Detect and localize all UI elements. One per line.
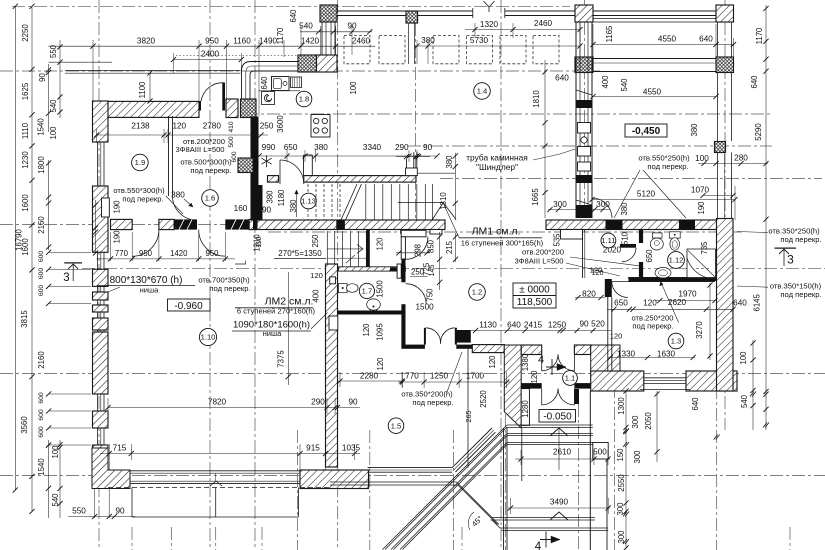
leader otv550x300 (1.9) — [166, 196, 183, 214]
door arc 1.7 to hall — [406, 284, 427, 305]
svg-text:1800: 1800 — [37, 156, 46, 174]
vestibule mid pier w — [521, 383, 542, 389]
room label 1.11 — [601, 233, 616, 248]
svg-text:1.5: 1.5 — [391, 421, 402, 430]
svg-text:735: 735 — [700, 241, 709, 255]
svg-text:5120: 5120 — [637, 190, 656, 199]
lower corridor wall east part — [546, 220, 732, 230]
left outer wall segments — [93, 101, 109, 142]
chimney solid piece 2 — [576, 175, 592, 183]
niche in left wall (1.9) — [102, 198, 110, 217]
right wall upper (terrace edge x716-733) — [717, 22, 719, 57]
svg-text:300: 300 — [596, 200, 610, 209]
svg-text:под перекр.: под перекр. — [190, 166, 231, 175]
level box -0.960 — [168, 299, 211, 311]
svg-text:550: 550 — [72, 507, 86, 516]
svg-text:2280: 2280 — [360, 372, 379, 381]
svg-text:190: 190 — [113, 200, 122, 214]
shower tray corner — [687, 249, 716, 278]
long wall between 1.10 and hall (x325.5-337.5) — [326, 264, 338, 467]
svg-text:2460: 2460 — [534, 19, 553, 28]
svg-text:1130: 1130 — [479, 321, 497, 330]
corner 1.5 northeast (solid) — [456, 330, 470, 343]
room label 1.2 — [469, 284, 486, 301]
washbasin 1.7 — [339, 284, 348, 293]
svg-text:535: 535 — [553, 233, 562, 247]
svg-text:300: 300 — [553, 200, 567, 209]
svg-text:300: 300 — [617, 530, 626, 544]
room 1.3 north wall — [628, 277, 715, 279]
dim 7820/290/90 — [108, 407, 360, 409]
axis col I (porch right) — [578, 404, 580, 550]
left outer wall bottom — [93, 445, 109, 470]
svg-text:под перекр.: под перекр. — [647, 162, 688, 171]
svg-text:800*130*670 (h): 800*130*670 (h) — [110, 275, 183, 286]
svg-text:2138: 2138 — [131, 122, 150, 131]
svg-text:640: 640 — [260, 76, 269, 90]
svg-text:380: 380 — [314, 143, 328, 152]
wall lines below K7 — [408, 23, 410, 64]
svg-text:600: 600 — [38, 268, 45, 280]
porch step arrows — [550, 428, 568, 436]
left wall pier — [93, 411, 109, 428]
lower wall solid piece 2 w/ slashes — [225, 219, 249, 229]
leader niche 1090 — [311, 313, 328, 330]
svg-text:510: 510 — [621, 231, 630, 245]
svg-text:600: 600 — [38, 285, 45, 297]
lower wall pier — [159, 219, 174, 229]
dim v left main chain — [31, 6, 33, 511]
door arc top (1.9 loggia door) — [222, 83, 225, 111]
dim row 540/90 — [300, 31, 372, 33]
svg-text:1250: 1250 — [430, 372, 449, 381]
svg-text:3815: 3815 — [20, 310, 29, 328]
svg-text:640: 640 — [555, 74, 569, 83]
svg-text:-0.050: -0.050 — [543, 411, 572, 422]
vestibule mid pier e — [574, 383, 590, 389]
dim v right margin — [765, 5, 767, 430]
svg-text:ниша: ниша — [263, 329, 283, 338]
axis row 7 (wc wall) — [82, 267, 825, 269]
svg-text:380: 380 — [289, 199, 298, 213]
upper corridor wall (stair north wall) — [268, 176, 279, 183]
axis row 5 (stair wall) — [440, 178, 822, 180]
leader otv250x200 — [661, 282, 679, 323]
wall 1.11 west — [582, 230, 584, 279]
svg-text:труба каминная: труба каминная — [466, 153, 528, 163]
svg-text:"Шиндлер": "Шиндлер" — [476, 162, 518, 172]
svg-text:2520: 2520 — [479, 390, 488, 408]
room label 1.5 — [388, 418, 404, 434]
svg-text:под перекр.: под перекр. — [412, 398, 453, 407]
room label 1.4 — [474, 83, 491, 100]
left outer wall lower-mid — [93, 332, 109, 394]
lower wall rooms 1.9/1.6 (y219.4-229.6) — [111, 219, 133, 229]
level box +0000/118500 — [513, 283, 556, 308]
svg-text:120: 120 — [172, 122, 186, 131]
dim 1320/2460 — [465, 29, 580, 31]
axis row 9 (south wall) — [0, 475, 825, 477]
column K5 (cross-hatched) — [716, 57, 734, 73]
column K2 — [575, 5, 593, 22]
svg-text:380: 380 — [421, 36, 435, 45]
svg-text:1250: 1250 — [548, 321, 567, 330]
svg-text:3: 3 — [787, 253, 794, 267]
stair upstand east walls — [406, 159, 408, 174]
svg-text:640: 640 — [691, 397, 700, 411]
svg-text:600: 600 — [231, 151, 238, 162]
svg-text:2780: 2780 — [203, 122, 222, 131]
svg-text:3340: 3340 — [363, 143, 382, 152]
svg-text:90: 90 — [115, 507, 125, 516]
dim v 1810/1665 — [544, 60, 546, 218]
porch side step box — [593, 443, 608, 460]
dim v 380/1310 — [454, 153, 456, 220]
dim row top-left 3820/950/1160/1490 — [49, 45, 376, 47]
svg-text:3820: 3820 — [137, 37, 156, 46]
axis col B — [209, 0, 211, 550]
svg-text:под перекр.: под перекр. — [780, 235, 821, 244]
dim v 2050 — [656, 391, 658, 462]
dim v 2160 chain — [48, 200, 50, 250]
svg-text:3490: 3490 — [550, 498, 569, 507]
svg-text:280: 280 — [734, 154, 748, 163]
svg-text:1310: 1310 — [439, 192, 448, 210]
dim 1970 — [655, 300, 715, 302]
svg-text:1070: 1070 — [691, 186, 710, 195]
door arc 1.9 to 1.10 — [132, 230, 159, 257]
stair wall left upstand — [303, 155, 305, 176]
lower corridor wall west part — [257, 220, 445, 230]
dim v inner chain 550/540 — [59, 40, 61, 118]
landing notch under wall — [401, 230, 409, 234]
right wall window (x716-733 y152-222) — [717, 153, 719, 221]
leader otv350x200 — [447, 352, 462, 392]
svg-text:3Ф8АIII L=500: 3Ф8АIII L=500 — [514, 257, 563, 266]
svg-text:650: 650 — [645, 249, 654, 263]
svg-text:100: 100 — [739, 351, 748, 365]
leader otv200x200 wc — [570, 257, 640, 266]
svg-text:16790: 16790 — [15, 228, 24, 250]
south pier (hatched) — [300, 470, 369, 489]
slab edge diagonal — [457, 482, 500, 525]
svg-text:4550: 4550 — [643, 88, 662, 97]
column K6 small cross-hatched — [715, 142, 726, 153]
door leaf box landing — [401, 230, 426, 237]
solid piece in corridor wall — [606, 220, 623, 230]
flue opening 1 — [578, 123, 591, 134]
door arc landing to hall — [405, 237, 428, 259]
dim v right inner — [752, 340, 754, 430]
room label 1.3 — [668, 333, 684, 349]
svg-text:6145: 6145 — [753, 293, 762, 311]
svg-text:1.7: 1.7 — [362, 287, 373, 296]
svg-text:под перекр.: под перекр. — [632, 322, 673, 331]
dim 380/5730 — [414, 45, 580, 47]
svg-text:950: 950 — [205, 249, 219, 258]
left wall window group 3a — [97, 394, 99, 411]
double door vestibule-porch — [541, 389, 543, 405]
svg-text:250: 250 — [311, 234, 320, 248]
corner window block C — [298, 55, 317, 72]
room 1.7 east wall — [401, 237, 405, 259]
svg-text:190: 190 — [113, 230, 122, 244]
solid piece in corridor wall 2 — [679, 220, 695, 230]
dim 1070 — [703, 195, 733, 197]
section arrow 4 bottom — [540, 539, 560, 541]
dim 2280 — [338, 380, 402, 382]
svg-text:1810: 1810 — [532, 90, 541, 108]
dim 820 — [575, 297, 605, 299]
dim 300/300 — [548, 209, 610, 211]
svg-text:16 ступеней 300*165(h): 16 ступеней 300*165(h) — [461, 239, 544, 248]
leader otv350x250 — [737, 232, 768, 233]
axis row 3 — [245, 113, 770, 115]
chimney solid bottom — [576, 205, 592, 218]
dim 2400 — [174, 59, 242, 61]
left wall window 1 — [97, 142, 99, 186]
axis col A (left wall) — [98, 0, 100, 550]
svg-text:850: 850 — [427, 239, 436, 253]
svg-text:915: 915 — [306, 444, 320, 453]
1.3 window — [644, 377, 686, 379]
svg-text:1490: 1490 — [259, 37, 278, 46]
svg-text:7375: 7375 — [277, 350, 286, 368]
svg-text:540: 540 — [49, 99, 58, 113]
dim v 1800 chain — [48, 160, 50, 200]
dim 550/90 — [68, 516, 135, 518]
svg-text:90: 90 — [348, 398, 358, 407]
chimney wall (fireplace flue) x576-592 — [575, 22, 577, 218]
svg-text:400: 400 — [601, 75, 610, 89]
svg-text:2160: 2160 — [37, 216, 46, 234]
svg-text:2415: 2415 — [524, 321, 543, 330]
dim rows 600 left wall — [49, 251, 91, 253]
svg-text:4: 4 — [535, 541, 542, 550]
svg-text:715: 715 — [113, 444, 127, 453]
kitchen drainer — [291, 77, 302, 88]
axis col F (chimney) — [584, 0, 586, 232]
chimney solid piece — [576, 100, 592, 108]
SW corner wall — [92, 448, 130, 489]
flue circle — [581, 137, 587, 143]
svg-text:2610: 2610 — [553, 448, 572, 457]
beam between K4-K5 — [593, 58, 716, 60]
landing notch at wall end — [430, 230, 442, 235]
terrace dashed squares row — [344, 36, 370, 64]
room label 1.7 — [359, 283, 374, 298]
beam top inner edge — [593, 18, 716, 20]
axis col G (right wall) — [724, 0, 726, 430]
column K4 (cross-hatched) — [575, 57, 593, 73]
dim extension lines top-left — [92, 40, 94, 101]
bay south window (triple) — [368, 467, 453, 469]
svg-text:600: 600 — [38, 392, 45, 404]
svg-text:290: 290 — [311, 398, 325, 407]
svg-text:820: 820 — [582, 290, 596, 299]
double slash marks porch dims — [623, 429, 627, 434]
left outer wall mid — [93, 186, 109, 252]
vent block otv.500*300 — [238, 158, 253, 173]
svg-text:3: 3 — [63, 272, 69, 284]
svg-text:120: 120 — [376, 357, 385, 371]
dim 2138/120/2780 — [97, 134, 269, 136]
svg-text:90: 90 — [423, 143, 433, 152]
axis row 6a (rooms 1.9/1.6 south wall) — [0, 224, 268, 226]
niche in long wall — [329, 316, 338, 330]
room 1.7 north wall — [339, 267, 406, 271]
room label 1.1 — [563, 371, 578, 386]
svg-text:380: 380 — [171, 191, 185, 200]
svg-text:1665: 1665 — [531, 188, 540, 206]
dim v inner chain 1540/90 — [48, 64, 50, 132]
svg-text:120: 120 — [362, 323, 371, 337]
svg-text:1160: 1160 — [233, 37, 251, 46]
kitchen east wall (solid) — [251, 117, 259, 221]
svg-text:1.13: 1.13 — [301, 197, 316, 206]
svg-text:3270: 3270 — [695, 321, 704, 339]
svg-text:1.8: 1.8 — [299, 95, 310, 104]
axis col G2 — [716, 232, 718, 550]
svg-text:540: 540 — [620, 78, 629, 92]
axis col K — [453, 430, 455, 550]
svg-text:640: 640 — [507, 321, 521, 330]
dim 1330/1630 — [608, 357, 695, 359]
section arrow 3 right — [775, 247, 797, 249]
svg-text:1500: 1500 — [415, 303, 434, 312]
tree symbol in beam gap — [484, 1, 495, 12]
lower wall pier east — [249, 219, 256, 229]
svg-text:1380: 1380 — [521, 353, 530, 371]
svg-text:1165: 1165 — [605, 25, 614, 42]
svg-text:1625: 1625 — [21, 82, 30, 100]
axis col J (porch left) — [504, 348, 506, 550]
left wall window group 3b — [97, 428, 99, 445]
dim v 7375 area — [287, 272, 289, 385]
svg-text:650: 650 — [614, 299, 628, 308]
svg-text:500: 500 — [593, 448, 607, 457]
svg-text:90: 90 — [579, 320, 589, 329]
south window band 1.10 — [130, 470, 300, 472]
small stair break diagonal — [346, 255, 355, 263]
axis col H (porch) — [614, 385, 616, 550]
leader 800x130 niche — [108, 287, 120, 292]
slab edge line south — [330, 481, 457, 483]
svg-text:5290: 5290 — [754, 123, 763, 141]
svg-text:1540: 1540 — [37, 118, 46, 136]
stair cut diagonal right and upper flight break — [432, 203, 443, 220]
top wall piece right of door — [226, 99, 238, 118]
dim 2610/500 — [515, 458, 610, 460]
dim 4550/640 top — [593, 44, 734, 46]
beam gap end caps — [472, 8, 474, 18]
svg-text:380: 380 — [266, 190, 275, 204]
svg-text:7820: 7820 — [208, 398, 227, 407]
svg-text:120: 120 — [610, 332, 623, 341]
svg-text:1170: 1170 — [276, 27, 285, 44]
dim 5120 — [592, 199, 735, 201]
svg-text:380: 380 — [690, 123, 699, 137]
svg-text:265: 265 — [464, 410, 473, 422]
svg-text:-0,450: -0,450 — [632, 126, 661, 137]
svg-text:950: 950 — [139, 249, 153, 258]
vestibule lower west wall — [521, 389, 529, 426]
svg-text:250: 250 — [411, 268, 425, 277]
axis col D — [337, 0, 339, 550]
svg-text:120: 120 — [643, 299, 657, 308]
room 1.7 south wall (solid) — [338, 311, 404, 315]
partition door arc 1.9/1.6 — [173, 196, 197, 220]
svg-text:215: 215 — [445, 240, 454, 254]
axis row 4 — [408, 145, 772, 147]
svg-text:120: 120 — [592, 270, 604, 277]
double door hall-vestibule — [541, 355, 543, 371]
svg-text:3600: 3600 — [276, 115, 285, 133]
svg-text:290: 290 — [395, 143, 409, 152]
stair break line — [341, 184, 357, 220]
dim 3490 — [508, 507, 610, 509]
svg-text:1110: 1110 — [21, 122, 30, 139]
left wall pier small 2 — [93, 305, 109, 312]
stair LM1 treads (16 steps) — [307, 184, 309, 220]
chimney small ticks — [576, 90, 592, 95]
dim 650/120/2620 — [607, 308, 733, 310]
svg-text:1630: 1630 — [657, 350, 676, 359]
wall stub K1 down to corner block — [321, 22, 323, 55]
axis row 6 (corridor wall) — [268, 231, 742, 233]
svg-text:190: 190 — [697, 201, 706, 215]
vestibule west wall (angled) — [504, 345, 521, 428]
column K1 (cross-hatched) — [320, 5, 337, 22]
lower wall solid piece w/ slashes — [174, 219, 197, 229]
door arc 1.6 to 1.10 — [199, 230, 226, 257]
flue opening 3 — [578, 162, 591, 171]
svg-text:1420: 1420 — [301, 37, 320, 46]
kitchen counter edge — [259, 90, 300, 92]
svg-text:120: 120 — [376, 237, 385, 251]
toilet 1.7 — [367, 299, 381, 310]
svg-text:250: 250 — [260, 122, 274, 131]
SE bottom wall — [591, 371, 644, 391]
svg-text:1095: 1095 — [376, 323, 385, 341]
svg-text:1700: 1700 — [466, 372, 485, 381]
vent snowflake symbol — [266, 155, 268, 167]
svg-text:750: 750 — [426, 288, 435, 302]
svg-text:100: 100 — [349, 81, 358, 95]
porch mid step — [492, 517, 595, 519]
wall corner hall-SE — [591, 345, 620, 371]
svg-text:90: 90 — [262, 206, 272, 215]
svg-text:1500: 1500 — [376, 280, 385, 298]
svg-text:1180: 1180 — [277, 189, 286, 206]
porch side walls vertical — [575, 389, 580, 404]
porch top steps — [507, 424, 593, 426]
leader truba kaminnaya — [533, 149, 575, 160]
left wall window group 2a — [97, 252, 99, 269]
svg-text:520: 520 — [591, 320, 605, 329]
svg-text:2460: 2460 — [352, 37, 371, 46]
vestibule north wall w — [521, 345, 542, 355]
top wall of room 1.9 — [93, 101, 199, 117]
svg-text:2250: 2250 — [21, 24, 30, 42]
axis col N (short) — [415, 23, 417, 232]
dim v inner chain 1540 bottom — [48, 440, 50, 518]
column K3 — [716, 5, 734, 22]
svg-text:1035: 1035 — [342, 444, 361, 453]
bay partition line 1.5 — [467, 348, 469, 468]
bidet — [653, 233, 663, 238]
svg-text:1320: 1320 — [480, 20, 499, 29]
